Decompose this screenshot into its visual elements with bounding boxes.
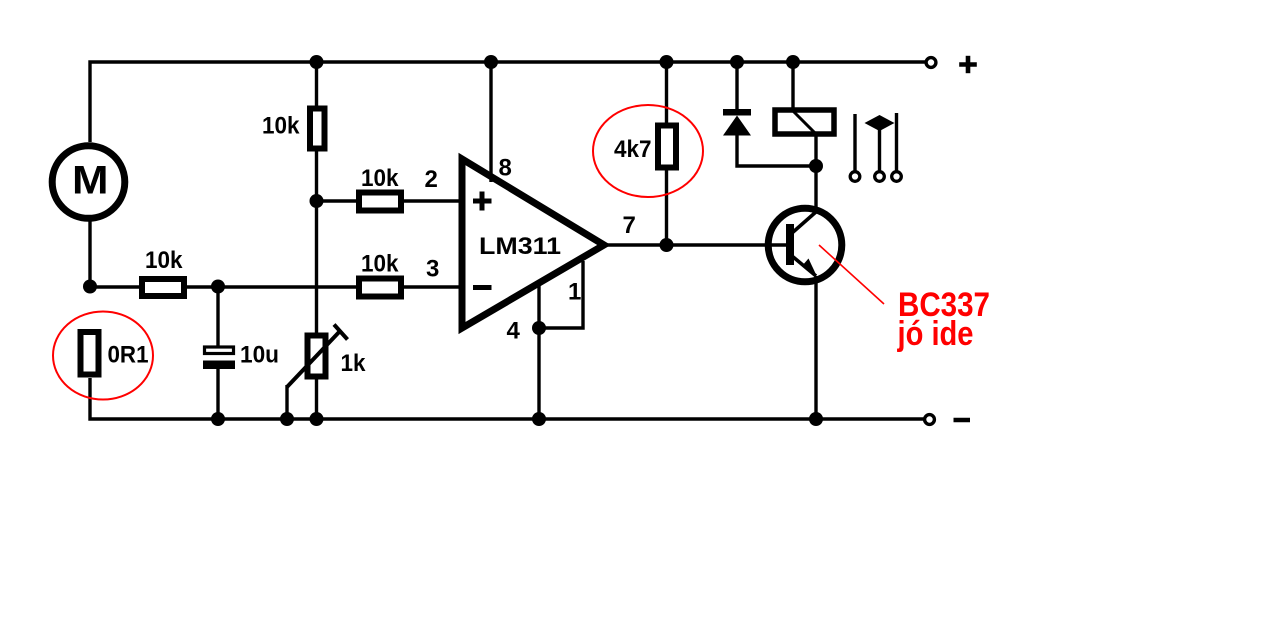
svg-text:1: 1 bbox=[568, 279, 581, 306]
wire top rail bbox=[90, 62, 925, 142]
wire motor to node A bbox=[88, 221, 91, 287]
junction relay top rail bbox=[786, 55, 800, 69]
resistor 10k to pin 3 bbox=[359, 279, 401, 297]
junction capacitor to bottom rail bbox=[211, 412, 225, 426]
wire node A to pin3 resistor bbox=[90, 285, 356, 288]
svg-text:LM311: LM311 bbox=[479, 233, 561, 260]
svg-text:M: M bbox=[72, 159, 109, 203]
wire pin 8 to top rail bbox=[489, 62, 492, 182]
svg-text:10k: 10k bbox=[361, 165, 399, 192]
transistor Q1 BC337 bbox=[768, 208, 842, 282]
svg-text:0R1: 0R1 bbox=[108, 342, 149, 369]
junction 4k7 top rail bbox=[660, 55, 674, 69]
junction diode top rail bbox=[730, 55, 744, 69]
junction pin1/pin4 bbox=[532, 321, 546, 335]
red annotation line bbox=[819, 245, 884, 304]
wire to op-amp pin 2 bbox=[404, 199, 461, 202]
relay contact set bbox=[850, 113, 901, 181]
svg-text:3: 3 bbox=[426, 256, 439, 283]
node C junction divider mid bbox=[310, 194, 324, 208]
junction output node bbox=[660, 238, 674, 252]
svg-text:jó ide: jó ide bbox=[897, 315, 974, 353]
minus sign bbox=[954, 418, 971, 423]
wire emitter to bottom rail bbox=[814, 276, 817, 419]
relay K1 coil bbox=[775, 62, 834, 210]
svg-text:4k7: 4k7 bbox=[614, 136, 652, 163]
capacitor 10u bbox=[203, 287, 235, 419]
potentiometer 1k bbox=[287, 325, 348, 420]
wire to op-amp pin 3 bbox=[404, 285, 461, 288]
terminal minus bbox=[925, 415, 935, 425]
motor M bbox=[52, 146, 125, 219]
svg-text:10k: 10k bbox=[145, 247, 183, 274]
junction pin8 top rail bbox=[484, 55, 498, 69]
terminal plus bbox=[926, 58, 936, 68]
red circle around 4k7 bbox=[593, 105, 703, 197]
wire pin 1 bbox=[539, 261, 583, 328]
wire pin 4 to bottom rail bbox=[537, 284, 540, 419]
wire pin 7 output to transistor base bbox=[604, 243, 786, 246]
junction pot bottom to rail bbox=[310, 412, 324, 426]
resistor 10k to pin 2 bbox=[359, 193, 401, 211]
svg-text:2: 2 bbox=[425, 166, 438, 193]
junction divider top bbox=[310, 55, 324, 69]
wire bottom rail bbox=[90, 378, 924, 419]
resistor 10k sense (left horizontal) bbox=[142, 279, 184, 296]
node B junction capacitor tap bbox=[211, 280, 225, 294]
junction emitter bottom rail bbox=[809, 412, 823, 426]
svg-text:10u: 10u bbox=[240, 342, 279, 369]
svg-text:10k: 10k bbox=[361, 251, 399, 278]
red circle around 0R1 bbox=[53, 312, 153, 400]
wire node C to pin 2 resistor bbox=[317, 199, 357, 202]
wire 4k7 vertical bbox=[665, 62, 668, 245]
node A junction motor/10k/0R1 bbox=[83, 280, 97, 294]
diode D1 bbox=[723, 62, 816, 166]
op-amp U1 LM311 bbox=[462, 159, 604, 328]
resistor 10k divider top (vertical) bbox=[310, 109, 325, 149]
svg-text:8: 8 bbox=[499, 155, 512, 182]
resistor 4k7 bbox=[658, 126, 676, 168]
svg-text:4: 4 bbox=[507, 318, 521, 345]
junction relay/diode/collector bbox=[809, 159, 823, 173]
plus sign bbox=[959, 56, 977, 73]
svg-text:7: 7 bbox=[623, 212, 636, 239]
junction pin4 bottom rail bbox=[532, 412, 546, 426]
svg-text:10k: 10k bbox=[262, 113, 300, 140]
svg-text:1k: 1k bbox=[341, 350, 367, 377]
wire divider vertical bbox=[315, 62, 318, 334]
resistor 0R1 bbox=[81, 332, 99, 375]
junction pot wiper to rail bbox=[280, 412, 294, 426]
